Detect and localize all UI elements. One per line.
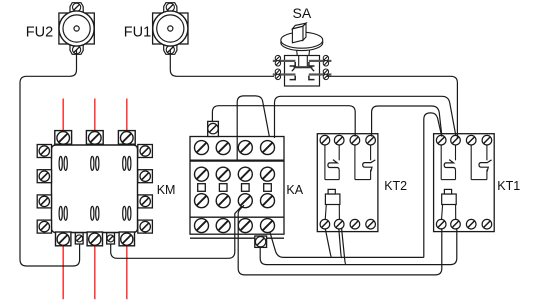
svg-text:KM: KM <box>157 183 176 197</box>
svg-text:KT2: KT2 <box>384 179 407 193</box>
svg-text:SA: SA <box>293 5 312 21</box>
svg-text:FU1: FU1 <box>124 25 151 41</box>
svg-text:KA: KA <box>286 183 303 197</box>
svg-text:FU2: FU2 <box>26 25 53 41</box>
svg-text:KT1: KT1 <box>497 179 520 193</box>
